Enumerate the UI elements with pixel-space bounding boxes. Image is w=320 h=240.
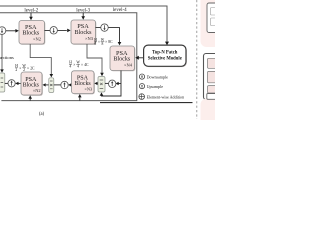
svg-text:×: × — [73, 63, 75, 67]
svg-text:×: × — [105, 40, 107, 44]
skip wire from PSA N3 to fusion F2 — [87, 44, 102, 73]
svg-text:Downsample: Downsample — [147, 74, 169, 79]
PSA blocks xN2 decoder box — [21, 72, 43, 96]
svg-text:×N3: ×N3 — [84, 87, 93, 92]
downsample circle D3 and wire into PSA N4 — [96, 28, 120, 43]
wire from D1 down to fusion F0 — [1, 35, 3, 71]
svg-text:4: 4 — [69, 65, 71, 69]
wire from PSA N4 bottom to upsample U3 and fusion F2 riser — [102, 71, 122, 97]
panel b box 1 — [207, 3, 221, 33]
wire fusion F1 into PSA N2b — [46, 84, 49, 86]
svg-text:nections: nections — [0, 55, 14, 60]
wire arrow from Top-N into PSA N4 right edge — [138, 57, 143, 59]
PSA blocks xN3 encoder box — [71, 20, 96, 45]
PSA blocks xN3 decoder box — [72, 71, 95, 95]
riser from bus into PSA N3b — [79, 97, 81, 101]
PSA blocks xN2 encoder box — [19, 21, 45, 45]
panel b inner box 2c — [208, 86, 219, 93]
svg-text:Upsample: Upsample — [147, 84, 164, 89]
wire fusion F2 into PSA N3b — [96, 82, 99, 84]
wire PSA N2b to U1b — [18, 82, 21, 84]
svg-text:×N2: ×N2 — [33, 88, 41, 93]
svg-text:×: × — [81, 63, 83, 67]
legend downsample — [139, 74, 168, 79]
label H/2 x W/2 x 2C — [15, 64, 35, 72]
svg-text:×: × — [19, 66, 21, 70]
arrow into Top-N top — [165, 42, 169, 46]
legend element-wise addition — [139, 94, 184, 100]
fusion box F0 (left edge, cropped) — [0, 73, 5, 92]
PSA blocks xN4 box — [110, 46, 135, 71]
svg-text:4: 4 — [77, 65, 79, 69]
upsample circle U1b — [5, 82, 9, 84]
wire from D1 to PSA N2 — [6, 30, 16, 32]
svg-text:8C: 8C — [108, 40, 113, 44]
panel b pink container top — [201, 0, 225, 47]
svg-text:×N4: ×N4 — [124, 62, 133, 67]
downsample circle D2 — [45, 29, 67, 31]
panel b inner box 1b — [211, 18, 220, 26]
wire line A (top skip to Top-N module) — [0, 6, 167, 43]
panel b inner box 2b — [208, 71, 219, 82]
Top-N Patch Selective Module box U1 — [144, 45, 187, 67]
svg-text:2C: 2C — [30, 66, 35, 70]
svg-text:(a): (a) — [39, 112, 45, 117]
svg-text:Selective Module: Selective Module — [148, 57, 182, 62]
panel b outlined box 2 — [204, 54, 221, 100]
wire dark output bus — [100, 102, 193, 104]
svg-text:Top-N Patch: Top-N Patch — [152, 50, 178, 55]
svg-text:2: 2 — [23, 68, 25, 72]
fusion box F2 — [98, 77, 105, 93]
wire PSA N3b to U2b — [69, 84, 71, 86]
legend upsample — [139, 84, 163, 89]
panel b small white box over pink — [207, 94, 218, 100]
upsample circle U3b — [105, 82, 109, 84]
svg-text:4C: 4C — [84, 63, 89, 67]
riser from bus into PSA N2b — [29, 98, 31, 100]
svg-text:8: 8 — [102, 42, 104, 46]
wire line B (second skip line, down right side, bottom bus) — [0, 13, 137, 101]
svg-text:level-4: level-4 — [113, 8, 127, 13]
svg-text:8: 8 — [94, 42, 96, 46]
label H/4 x W/4 x 4C — [69, 61, 89, 69]
label H/8 x W/8 x 8C — [94, 38, 113, 46]
svg-text:2: 2 — [15, 68, 17, 72]
upsample circle U2b — [54, 84, 61, 86]
panel b inner box 1a — [211, 8, 220, 16]
downsample circle D1 (left edge) — [0, 27, 6, 35]
panel b inner box 2a — [208, 58, 219, 68]
arrow into PSA N3 — [67, 29, 70, 33]
fusion box F1 — [49, 78, 54, 93]
svg-text:×: × — [27, 66, 29, 70]
svg-text:level-2: level-2 — [24, 9, 38, 14]
panel b pink container bottom — [201, 99, 225, 129]
svg-text:×: × — [98, 40, 100, 44]
svg-text:×N3: ×N3 — [85, 36, 94, 41]
svg-text:Element-wise Addition: Element-wise Addition — [147, 94, 184, 99]
wire drop from line B into PSA N2 top — [30, 13, 32, 18]
svg-text:×N2: ×N2 — [33, 36, 41, 41]
wire drop from line B into PSA N3 top — [82, 13, 84, 17]
skip wire from PSA N2 to fusion F1 — [30, 44, 51, 75]
dashed separator — [196, 0, 198, 119]
